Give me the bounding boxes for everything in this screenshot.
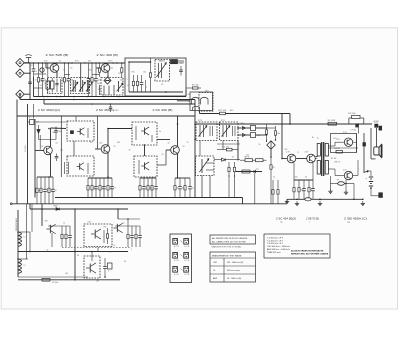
- DB1 parts: [87, 128, 89, 138]
- wire left col b: [31, 204, 33, 232]
- volume control DB7 (dashed): [196, 156, 215, 176]
- resistor R38: [65, 226, 67, 247]
- resistor R31: [293, 180, 295, 199]
- transistor Q2 2SC460 1st IF: [101, 64, 110, 73]
- svg-text:OM 5R: OM 5R: [334, 148, 341, 150]
- svg-text:C6: C6: [180, 63, 182, 65]
- battery connector plug: [379, 193, 383, 198]
- svg-text:1k: 1k: [273, 177, 275, 179]
- resistor R27c: [233, 162, 235, 177]
- wire J1: [24, 62, 30, 64]
- svg-text:5k: 5k: [123, 223, 125, 225]
- capacitor C11: [102, 178, 106, 198]
- resistor R42 on bus: [42, 279, 50, 282]
- capacitor block C17: [251, 126, 256, 131]
- resistor R39: [106, 228, 108, 244]
- wire bias row: [37, 176, 53, 178]
- svg-text:5k: 5k: [232, 157, 234, 159]
- wire J3: [24, 93, 30, 95]
- diode D8 vertical: [37, 130, 40, 134]
- wire Q3 emitter: [50, 154, 52, 177]
- wire tone drop a: [228, 175, 230, 198]
- diode dome D2: [201, 97, 209, 104]
- wire battery top: [369, 170, 372, 172]
- svg-text:535 - 1605 kc/s (B): 535 - 1605 kc/s (B): [227, 262, 243, 264]
- svg-text:ALL CAPACITORS 50V 10% NOT: ALL CAPACITORS 50V 10% NOTED: [212, 240, 246, 243]
- wire row: [140, 177, 156, 179]
- svg-text:455: 455: [88, 61, 91, 63]
- diode D4: [241, 126, 246, 129]
- wire DB1 top stub: [75, 116, 77, 121]
- svg-text:10: 10: [35, 80, 37, 82]
- svg-text:473: 473: [256, 169, 259, 171]
- svg-text:104: 104: [97, 83, 100, 85]
- resistor R36: [277, 180, 279, 204]
- wire bus3: [18, 276, 88, 278]
- svg-text:25: 25: [114, 146, 116, 148]
- wire volume out: [214, 159, 222, 161]
- voltage table header: [210, 257, 256, 259]
- wire mid left outer: [16, 100, 18, 204]
- antenna coil L3: [18, 232, 22, 246]
- resistor R30 h: [242, 170, 250, 173]
- svg-text:SW: SW: [45, 221, 48, 223]
- T4 secondary lower: [325, 161, 328, 175]
- svg-text:4.5V: 4.5V: [374, 121, 379, 124]
- resistor R40: [127, 226, 129, 247]
- DB2 parts: [64, 162, 66, 174]
- electrolytic C7: [30, 120, 35, 125]
- svg-text:5: 5: [146, 188, 147, 190]
- wire bias link c: [92, 74, 100, 76]
- wire rail C: [44, 103, 195, 105]
- svg-text:ALIGN IN ORDER SHOWN ABOVE: ALIGN IN ORDER SHOWN ABOVE: [291, 249, 324, 252]
- T3 stub b: [103, 86, 105, 96]
- ground G1: [295, 201, 299, 205]
- capacitor C14: [154, 178, 158, 198]
- resistor R21: [151, 178, 153, 198]
- wire bus4 long: [18, 279, 120, 281]
- resistor R19: [139, 178, 141, 198]
- svg-text:1N60: 1N60: [240, 123, 244, 125]
- capacitor C50 with label: [110, 104, 112, 107]
- detector box: [190, 92, 213, 111]
- wire rail B: [20, 99, 195, 101]
- svg-text:30: 30: [70, 68, 72, 70]
- resistor R17: [99, 178, 105, 198]
- battery B1: [369, 176, 373, 178]
- resistor R26: [270, 157, 275, 177]
- wire ground rail right: [286, 199, 288, 204]
- transistor Q4 2SC460 2nd IF: [101, 145, 110, 154]
- voltage table column divider: [223, 258, 225, 282]
- svg-text:2 SC 535 (B): 2 SC 535 (B): [46, 53, 69, 57]
- svg-text:OSC: OSC: [213, 262, 218, 264]
- svg-text:1k: 1k: [168, 143, 170, 145]
- wire D8: [38, 125, 40, 130]
- transistor Q5 audio driver: [171, 146, 180, 155]
- coupling unit DB4 (dashed): [134, 156, 157, 177]
- wire agc vertical: [266, 140, 268, 142]
- wire DB8 drop: [97, 248, 99, 252]
- pinout pointer row2: [181, 255, 183, 257]
- ferrite antenna rod: [17, 210, 19, 277]
- wire DB3 out right: [157, 139, 170, 141]
- wire Q8 base: [329, 145, 336, 147]
- capacitor C1 input: [30, 63, 35, 77]
- wire Q6 base: [282, 158, 287, 160]
- pinout package row1 right: [184, 239, 189, 245]
- osc unit DB9 (dashed): [84, 256, 100, 278]
- svg-text:CH 9a: CH 9a: [351, 130, 358, 132]
- IF transformer T2 (dashed): [71, 78, 90, 94]
- ground G3: [361, 201, 365, 205]
- wire DB1-DB2 vertical: [73, 141, 75, 156]
- DB5 arrow: [199, 126, 208, 137]
- wire DB7 drop b: [209, 176, 211, 198]
- svg-text:2k: 2k: [41, 146, 43, 148]
- wire detector out: [199, 111, 201, 114]
- svg-text:113: 113: [90, 142, 93, 144]
- svg-text:E C B: E C B: [185, 246, 190, 248]
- wire battery bottom: [370, 188, 372, 196]
- wire q3 base tap: [39, 135, 41, 150]
- coupling unit DB3 (dashed): [132, 122, 157, 145]
- resistor R7: [149, 58, 151, 92]
- capacitor C8: [43, 177, 48, 204]
- wire Q2 base: [96, 67, 101, 69]
- connector J3: [16, 90, 24, 98]
- svg-text:2 SB 405A (C): 2 SB 405A (C): [344, 217, 367, 221]
- svg-text:2 SC 460 (B): 2 SC 460 (B): [153, 108, 173, 112]
- svg-text:+C50: +C50: [113, 110, 119, 112]
- T4 core: [321, 142, 323, 176]
- capacitor C4: [94, 63, 100, 97]
- battery feed connector: [375, 124, 378, 127]
- resistor R5: [132, 75, 134, 92]
- svg-text:455: 455: [120, 80, 123, 82]
- wire speaker wire B: [376, 128, 378, 147]
- ground thermistor: [328, 189, 332, 193]
- svg-text:E C B: E C B: [185, 260, 190, 262]
- wire Q3 collector: [50, 128, 52, 147]
- transistor Q11 inside DB8: [91, 229, 101, 239]
- resistor R44 oval on rail: [305, 198, 311, 201]
- svg-text:30: 30: [124, 261, 126, 263]
- wire dashed link: [62, 247, 130, 249]
- wire agc rows: [238, 127, 241, 129]
- wire driver emitters row: [294, 179, 313, 181]
- wire rail A: [34, 96, 187, 98]
- wire Q6-Q7 link: [296, 158, 307, 160]
- svg-text:455: 455: [89, 70, 92, 72]
- junction dots on rails: [17, 61, 372, 280]
- T3 stub d: [113, 85, 115, 95]
- DB5 winding: [199, 125, 201, 137]
- svg-text:T-1 455 kc/s I.F.T.: T-1 455 kc/s I.F.T.: [267, 237, 283, 239]
- T3 diode bridge diamond: [104, 77, 111, 84]
- wire mid inner2: [34, 119, 36, 198]
- svg-text:2W 10k: 2W 10k: [348, 113, 356, 115]
- resistor R41: [135, 226, 137, 247]
- wire rail A step: [242, 198, 244, 204]
- DB6 winding: [222, 125, 224, 137]
- wire left feed x61: [60, 116, 62, 177]
- svg-text:FERRITE ANT: FERRITE ANT: [15, 217, 18, 231]
- diode dome D3: [193, 106, 200, 110]
- svg-text:IFT4: IFT4: [221, 120, 225, 122]
- resistor R25: [274, 126, 280, 140]
- svg-text:T-2 455 kc/s I.F.T.: T-2 455 kc/s I.F.T.: [267, 240, 283, 242]
- pinout package row3 right: [184, 267, 189, 273]
- wire left col a: [26, 204, 28, 259]
- svg-text:TW: TW: [347, 222, 350, 224]
- wire J3 drop: [19, 94, 21, 99]
- wire C7 to DB1: [36, 121, 66, 123]
- label B+ takeoff: [289, 123, 291, 125]
- resistor R22: [174, 178, 179, 198]
- T2 coil arrow a: [72, 80, 74, 92]
- T1 body resistor a: [46, 81, 50, 89]
- wire Q5 base: [166, 149, 171, 151]
- output transformer T4 primary winding upper: [317, 144, 320, 157]
- svg-text:BC 50k: BC 50k: [192, 85, 199, 87]
- svg-text:4k7: 4k7: [100, 143, 103, 145]
- driver unit DB2 (dashed): [67, 156, 94, 176]
- wire speaker wire A: [370, 128, 372, 159]
- svg-text:56: 56: [188, 101, 190, 103]
- resistor R13: [40, 177, 42, 204]
- capacitor C15: [178, 178, 184, 198]
- resistor R14: [48, 177, 53, 204]
- wire after D7: [225, 159, 240, 161]
- svg-text:25: 25: [114, 188, 116, 190]
- svg-text:L1: L1: [24, 237, 26, 239]
- wire mid band top edge: [17, 115, 195, 117]
- antenna coil L4: [18, 259, 22, 273]
- wire row q10: [48, 225, 70, 227]
- capacitor C21: [302, 180, 306, 199]
- svg-text:IFT3: IFT3: [198, 120, 202, 122]
- transistor Q9 2SB405A lower: [344, 171, 352, 179]
- T2 coil arrow c: [87, 80, 89, 92]
- resistor R8 horizontal: [186, 87, 193, 89]
- svg-text:50: 50: [305, 177, 307, 179]
- wire Q1 emitter: [56, 72, 58, 78]
- detector dashed overlay: [199, 93, 213, 112]
- pinout pointer row3: [181, 269, 183, 271]
- diode D5: [241, 133, 246, 136]
- connector J1: [16, 59, 24, 67]
- resistor R23: [184, 178, 186, 198]
- wire top feed: [33, 112, 35, 119]
- wire bus2: [18, 251, 128, 253]
- capacitor C28: [55, 127, 57, 131]
- svg-text:2 SB 75 (B): 2 SB 75 (B): [306, 217, 319, 221]
- svg-text:2 SC 460 (B): 2 SC 460 (B): [97, 53, 119, 57]
- micro value labels group: [24, 61, 348, 283]
- capacitor C13: [142, 178, 146, 198]
- wire DB4 to Q5: [157, 164, 166, 166]
- pinout package row3 left: [173, 267, 178, 273]
- wire ground rail A: [55, 197, 243, 199]
- svg-text:k: k: [204, 114, 205, 116]
- node base Q1: [38, 62, 40, 64]
- svg-text:C 4.5V: C 4.5V: [25, 145, 27, 152]
- T2 coil arrow b: [80, 63, 82, 92]
- capacitor C27 block: [108, 263, 113, 269]
- terminal left: [10, 203, 12, 205]
- transistor Q10 switch: [46, 224, 55, 234]
- svg-text:10: 10: [59, 61, 61, 63]
- connector J2: [16, 69, 24, 77]
- resistor R34 h: [336, 150, 343, 153]
- T4 primary winding lower: [317, 161, 320, 175]
- svg-text:2k: 2k: [259, 144, 261, 146]
- resistor R11 2W10k loop: [348, 118, 350, 124]
- resistor R37: [61, 226, 63, 247]
- wire mid join: [39, 139, 57, 141]
- transistor inside DB4: [141, 162, 149, 170]
- wire emitters drop: [293, 163, 295, 180]
- svg-text:104: 104: [98, 80, 101, 82]
- IF transformer T1 (dashed): [48, 78, 63, 94]
- wire Q1 base: [46, 67, 50, 69]
- svg-text:L2: L2: [24, 265, 26, 267]
- volume arrow: [200, 159, 210, 173]
- wire drop x42: [41, 204, 43, 226]
- svg-text:50 - 7000 c/s (B): 50 - 7000 c/s (B): [227, 278, 241, 280]
- resistor R32: [298, 180, 304, 199]
- wire Q10 tail: [51, 233, 53, 247]
- capacitor block C18: [251, 133, 256, 138]
- svg-text:50: 50: [183, 146, 185, 148]
- wire Q4 collector up: [107, 129, 109, 146]
- wire tone row: [240, 159, 245, 161]
- svg-text:2: 2: [131, 249, 132, 251]
- IF unit DB6 (dashed): [220, 122, 239, 141]
- transistor inside DB2: [77, 163, 84, 170]
- wire Q2 emitter: [107, 72, 109, 78]
- svg-text:104: 104: [65, 273, 68, 275]
- wire varistor chain drop: [270, 177, 272, 204]
- wire Q emitter drop: [345, 180, 347, 190]
- svg-text:E C B: E C B: [174, 260, 179, 262]
- svg-text:OM 5%: OM 5%: [334, 162, 341, 164]
- trimmer capacitor: [171, 60, 178, 64]
- coil blob L5: [40, 68, 44, 72]
- capacitor C10: [94, 178, 98, 198]
- svg-text:TRAP 455 kc/s: TRAP 455 kc/s: [267, 251, 281, 254]
- wire to B+ corner: [226, 113, 291, 115]
- svg-text:2k: 2k: [63, 70, 65, 72]
- svg-text:4k7: 4k7: [53, 132, 56, 134]
- transistor Q1 2SC535 converter: [50, 64, 59, 73]
- speaker SP: [374, 147, 379, 155]
- svg-text:30: 30: [129, 150, 131, 152]
- wire Q3 base: [35, 149, 44, 151]
- svg-text:50: 50: [109, 252, 111, 254]
- resistor R3: [91, 63, 96, 97]
- svg-text:IFT2: IFT2: [109, 61, 113, 63]
- tuning box outline: [125, 58, 186, 96]
- wire switch from rail: [358, 124, 360, 134]
- wire coil tap2: [18, 258, 28, 260]
- pinout package row2 right: [184, 253, 189, 259]
- DB8 part: [103, 230, 105, 243]
- svg-text:L2: L2: [127, 85, 129, 87]
- svg-text:T-3 455 kc/s I.F.T.: T-3 455 kc/s I.F.T.: [267, 243, 283, 245]
- svg-text:C50: C50: [336, 139, 339, 141]
- wire row2: [175, 177, 190, 179]
- transistor Q12 switch2: [113, 223, 122, 233]
- wire DB3-DB4 link: [144, 145, 146, 156]
- wire B+ rail: [196, 123, 372, 125]
- T1 stub: [60, 79, 62, 92]
- wire corner down: [289, 114, 291, 125]
- IF transformer T3 (dashed): [101, 78, 123, 96]
- resistor R33: [308, 180, 313, 199]
- wire speaker feed left: [329, 147, 359, 149]
- DB6 core: [232, 126, 234, 136]
- wire lower cluster row2: [236, 171, 262, 173]
- wire thermistor left drop: [330, 176, 332, 189]
- wire Q4 emitter: [107, 153, 109, 178]
- DB1 dark square: [70, 131, 73, 134]
- capacitor C26: [103, 258, 107, 277]
- driver unit DB1 (dashed): [67, 121, 94, 141]
- wire Q4 base feed: [97, 116, 99, 149]
- svg-text:100: 100: [295, 177, 298, 179]
- T1 capacitor c: [56, 79, 58, 84]
- wire rail B to C: [43, 100, 45, 105]
- resistor R43: [98, 63, 100, 77]
- wire emitter row: [88, 177, 112, 179]
- wire B+ drop x282: [281, 114, 283, 159]
- svg-text:ALL RESISTORS 1/8 W 10% UN: ALL RESISTORS 1/8 W 10% UNLESS: [212, 237, 248, 240]
- capacitor C6: [180, 66, 182, 70]
- transistor Q8 2SB405A upper: [344, 138, 352, 146]
- ground output: [344, 190, 348, 194]
- capacitor C12: [110, 178, 115, 198]
- wire bias link d: [34, 87, 43, 89]
- switch knob blob: [363, 143, 366, 147]
- svg-text:5: 5: [116, 91, 117, 93]
- capacitor C30 on input column: [29, 78, 31, 82]
- volume pot body: [201, 159, 203, 173]
- resistor R16: [91, 178, 97, 198]
- svg-text:2k: 2k: [114, 245, 116, 247]
- resistor R15: [87, 178, 89, 198]
- svg-text:50: 50: [192, 188, 194, 190]
- transistor Q6 driver 2SB75: [287, 154, 296, 163]
- output stage box: [331, 134, 357, 153]
- svg-text:1k: 1k: [62, 80, 64, 82]
- wire tone drop c: [254, 173, 256, 204]
- wire DB6 link: [217, 143, 240, 145]
- VC arrow: [157, 63, 167, 78]
- wire Q9 base: [329, 168, 336, 170]
- resistor R20: [147, 178, 153, 198]
- DB6 arrow: [222, 126, 231, 137]
- svg-text:104: 104: [98, 89, 101, 91]
- resistor R2: [63, 63, 68, 97]
- T3 stub c: [108, 86, 110, 96]
- svg-text:2 SC 454 (B)(2): 2 SC 454 (B)(2): [276, 217, 296, 221]
- capacitor C2: [41, 63, 46, 97]
- thermistor TH1: [338, 182, 345, 186]
- transistor inside DB1: [77, 128, 84, 135]
